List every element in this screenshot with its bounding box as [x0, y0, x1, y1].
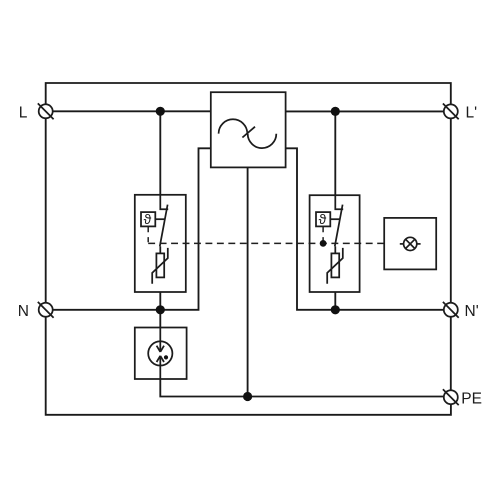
svg-text:PE: PE [461, 391, 482, 408]
svg-text:N: N [18, 303, 29, 320]
svg-text:ϑ: ϑ [144, 211, 152, 227]
svg-text:ϑ: ϑ [319, 211, 327, 227]
svg-text:L': L' [466, 104, 478, 121]
svg-text:L: L [19, 104, 28, 121]
svg-text:N': N' [465, 303, 479, 320]
